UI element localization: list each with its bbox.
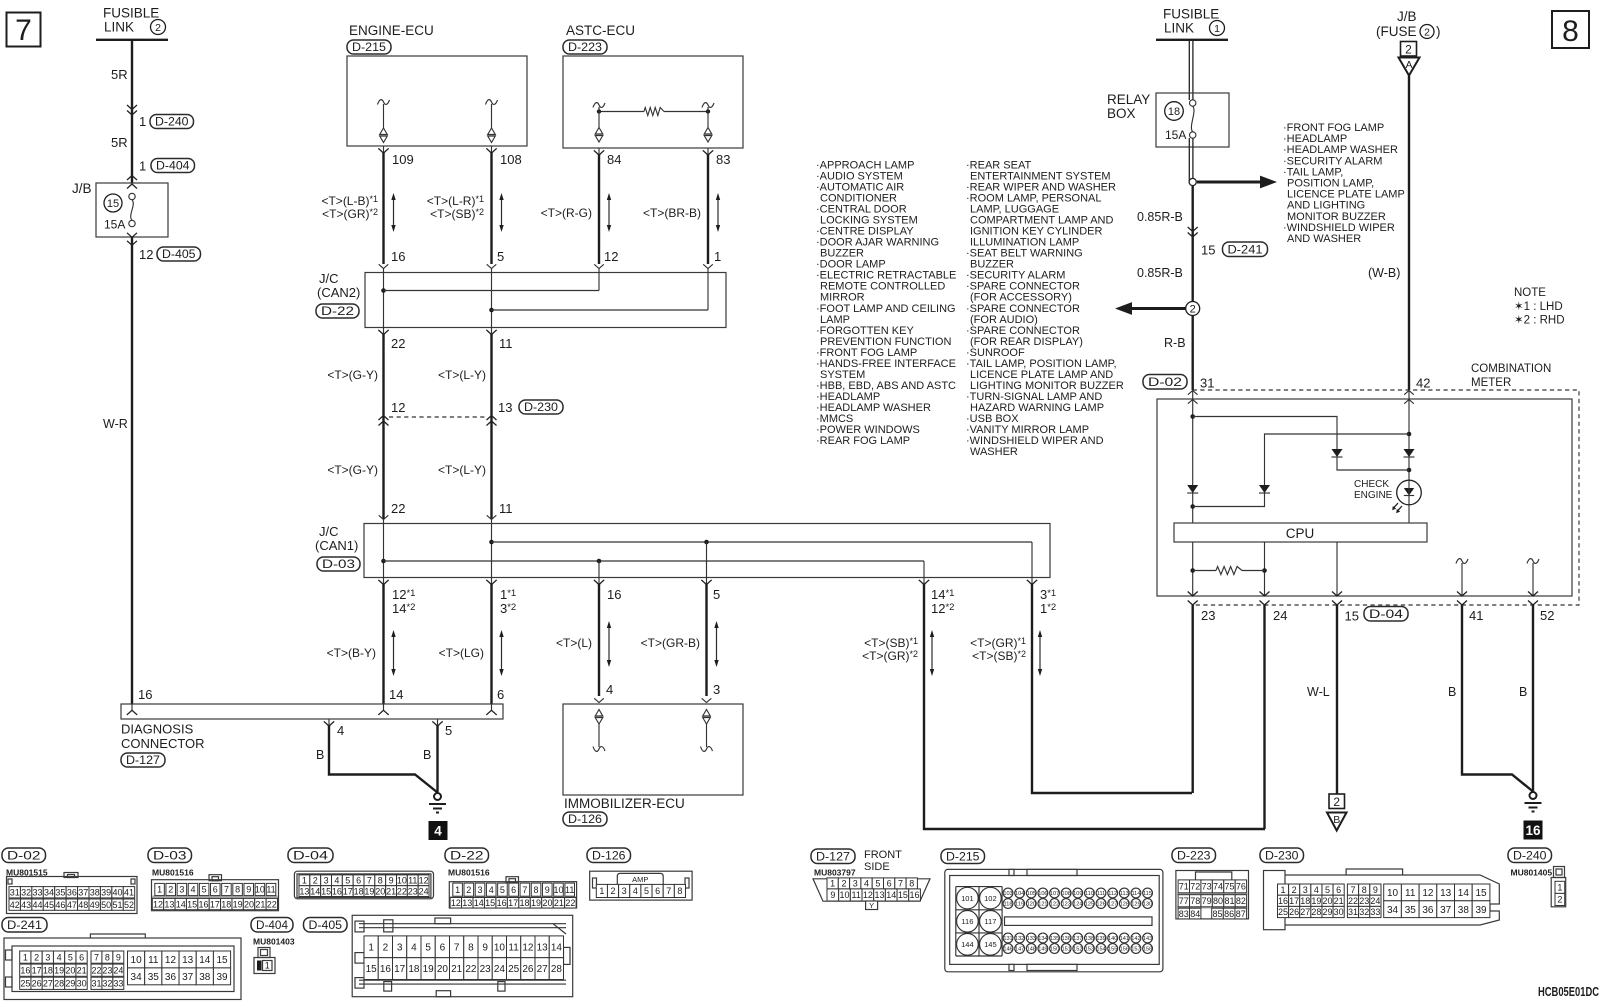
svg-text:145: 145 — [984, 940, 997, 949]
J/C CAN2 box — [365, 273, 726, 328]
svg-text:17: 17 — [343, 886, 353, 896]
svg-text:4: 4 — [337, 723, 344, 738]
meter wires below CPU — [1192, 542, 1194, 596]
svg-text:123: 123 — [1061, 902, 1070, 908]
svg-text:156: 156 — [1120, 947, 1129, 953]
svg-text:7: 7 — [666, 886, 671, 896]
svg-text:107: 107 — [1050, 891, 1059, 897]
svg-text:32: 32 — [102, 979, 112, 989]
svg-text:14: 14 — [551, 942, 563, 953]
svg-text:✶2 : RHD: ✶2 : RHD — [1514, 315, 1565, 327]
svg-text:118: 118 — [1004, 902, 1013, 908]
svg-text:FRONT: FRONT — [864, 849, 902, 861]
ASTC-ECU box — [563, 56, 743, 148]
svg-text:J/B: J/B — [1397, 9, 1417, 24]
diagnosis connector box — [121, 704, 503, 719]
svg-text:151: 151 — [1061, 947, 1070, 953]
svg-text:21: 21 — [77, 965, 87, 975]
CAN1 entry forks — [379, 515, 389, 519]
svg-text:D-03: D-03 — [153, 848, 187, 862]
svg-text:8: 8 — [909, 879, 914, 889]
svg-text:79: 79 — [1202, 896, 1212, 906]
svg-text:A: A — [1405, 59, 1412, 71]
svg-text:14: 14 — [886, 890, 896, 900]
svg-text:11: 11 — [266, 885, 275, 895]
svg-text:157: 157 — [1131, 947, 1140, 953]
svg-text:20: 20 — [437, 964, 449, 975]
svg-text:16: 16 — [380, 964, 392, 975]
svg-text:HCB05E01DC: HCB05E01DC — [1538, 984, 1599, 999]
svg-text:74: 74 — [1213, 882, 1223, 892]
svg-text:15: 15 — [107, 198, 119, 210]
svg-text:3: 3 — [1303, 885, 1308, 895]
svg-text:35: 35 — [1405, 905, 1417, 916]
svg-text:131: 131 — [1003, 936, 1012, 942]
system list column 1 — [816, 160, 956, 448]
svg-text:143: 143 — [1143, 936, 1152, 942]
svg-text:22: 22 — [465, 964, 477, 975]
connector crossing 12 D-405 — [127, 233, 137, 238]
svg-text:36: 36 — [1422, 905, 1434, 916]
svg-text:21: 21 — [1334, 896, 1344, 906]
svg-text:CHECK: CHECK — [1354, 479, 1389, 490]
svg-text:19: 19 — [364, 886, 374, 896]
svg-text:34: 34 — [1387, 905, 1399, 916]
svg-text:22: 22 — [267, 899, 277, 909]
svg-text:<T>(LG): <T>(LG) — [439, 646, 484, 660]
svg-text:17: 17 — [210, 899, 220, 909]
svg-text:8: 8 — [105, 952, 110, 962]
svg-text:81: 81 — [1224, 896, 1234, 906]
svg-text:B: B — [1448, 685, 1456, 699]
connector D-405 pinout — [304, 918, 348, 933]
svg-text:122: 122 — [1050, 902, 1059, 908]
svg-text:150: 150 — [1050, 947, 1059, 953]
svg-text:LINK: LINK — [1164, 21, 1194, 36]
svg-text:D-03: D-03 — [322, 557, 355, 571]
svg-text:D-223: D-223 — [568, 40, 602, 54]
svg-text:50: 50 — [101, 900, 111, 910]
svg-text:21: 21 — [255, 899, 265, 909]
svg-text:26: 26 — [1289, 907, 1299, 917]
svg-text:38: 38 — [90, 887, 100, 897]
svg-text:158: 158 — [1143, 947, 1152, 953]
svg-text:124: 124 — [1073, 902, 1082, 908]
connector D-127 pinout — [811, 849, 855, 864]
svg-text:1: 1 — [368, 942, 374, 953]
immobilizer internal pin symbols — [595, 710, 603, 717]
svg-text:16: 16 — [391, 249, 405, 264]
svg-text:7: 7 — [454, 942, 460, 953]
svg-text:0.85R-B: 0.85R-B — [1137, 210, 1183, 224]
svg-text:31: 31 — [10, 887, 20, 897]
meter bottom pin forks — [1188, 592, 1198, 597]
svg-text:D-230: D-230 — [524, 400, 558, 414]
svg-text:45: 45 — [44, 900, 54, 910]
svg-text:1: 1 — [714, 249, 721, 264]
svg-text:41: 41 — [124, 887, 134, 897]
ASTC internal terminating resistor — [601, 111, 644, 113]
svg-text:7: 7 — [1350, 885, 1355, 895]
svg-text:): ) — [1436, 24, 1441, 39]
svg-text:D-02: D-02 — [7, 848, 41, 862]
svg-text:1: 1 — [599, 886, 604, 896]
ENGINE-ECU box — [347, 56, 527, 146]
CAN2 internal bus CAN-L — [383, 269, 385, 328]
svg-text:Y: Y — [869, 901, 874, 910]
svg-text:LINK: LINK — [104, 20, 134, 35]
junction circle to front harness — [1189, 178, 1196, 185]
svg-text:24: 24 — [419, 886, 429, 896]
svg-text:43: 43 — [21, 900, 31, 910]
svg-text:15: 15 — [216, 955, 228, 966]
svg-text:87: 87 — [1236, 909, 1246, 919]
svg-text:ASTC-ECU: ASTC-ECU — [566, 23, 635, 38]
svg-text:12: 12 — [165, 955, 177, 966]
svg-text:J/B: J/B — [72, 181, 92, 196]
svg-text:D-240: D-240 — [155, 114, 189, 128]
svg-text:7: 7 — [15, 14, 32, 47]
svg-text:24: 24 — [494, 964, 506, 975]
CAN1 internal bus CAN-L — [383, 520, 385, 578]
svg-text:2: 2 — [383, 942, 389, 953]
svg-text:BOX: BOX — [1107, 106, 1136, 121]
svg-text:5: 5 — [500, 885, 505, 895]
svg-text:13: 13 — [299, 886, 309, 896]
svg-text:9: 9 — [1373, 885, 1378, 895]
svg-text:6: 6 — [356, 876, 361, 886]
svg-text:D-215: D-215 — [352, 40, 386, 54]
svg-text:125: 125 — [1085, 902, 1094, 908]
svg-text:18: 18 — [43, 965, 53, 975]
svg-text:12: 12 — [391, 400, 405, 415]
svg-text:115: 115 — [1143, 891, 1152, 897]
meter wire from pin 31 — [1192, 390, 1194, 523]
svg-text:D-22: D-22 — [450, 848, 484, 862]
svg-text:23: 23 — [102, 965, 112, 975]
pin 83 — [707, 148, 709, 155]
meter branch to diode 1 — [1193, 417, 1337, 450]
ground G16 — [1530, 792, 1537, 799]
svg-text:2: 2 — [1333, 795, 1340, 809]
svg-text:119: 119 — [1015, 902, 1024, 908]
fuse 18 15A — [1165, 102, 1184, 121]
svg-text:21: 21 — [554, 898, 564, 908]
svg-text:10: 10 — [494, 942, 506, 953]
svg-text:41: 41 — [1469, 608, 1483, 623]
svg-text:22: 22 — [91, 965, 101, 975]
svg-text:11: 11 — [148, 955, 159, 966]
svg-text:3: 3 — [853, 879, 858, 889]
wire pin 23 down — [1191, 605, 1193, 793]
svg-text:2: 2 — [1557, 895, 1562, 905]
page link triangle A — [1399, 58, 1420, 76]
J/C CAN1 box — [364, 524, 1050, 578]
svg-text:73: 73 — [1202, 882, 1212, 892]
svg-text:32: 32 — [1359, 907, 1369, 917]
svg-text:4: 4 — [633, 886, 638, 896]
svg-text:15: 15 — [1475, 888, 1487, 899]
svg-text:30: 30 — [77, 979, 87, 989]
svg-text:84: 84 — [1190, 909, 1200, 919]
svg-text:39: 39 — [216, 972, 228, 983]
svg-text:34: 34 — [44, 887, 54, 897]
svg-text:42: 42 — [1416, 376, 1430, 391]
svg-text:4: 4 — [411, 942, 417, 953]
svg-text:120: 120 — [1027, 902, 1036, 908]
svg-text:17: 17 — [394, 964, 406, 975]
svg-text:16: 16 — [199, 899, 209, 909]
svg-text:113: 113 — [1120, 891, 1129, 897]
svg-text:3: 3 — [713, 682, 720, 697]
wire W-R — [131, 237, 133, 705]
svg-text:11: 11 — [499, 336, 513, 351]
svg-text:13: 13 — [462, 898, 472, 908]
svg-text:4: 4 — [434, 824, 442, 839]
svg-text:20: 20 — [65, 965, 75, 975]
svg-text:5: 5 — [68, 952, 73, 962]
svg-text:114: 114 — [1131, 891, 1140, 897]
svg-text:5R: 5R — [111, 67, 128, 82]
svg-text:<T>(L-Y): <T>(L-Y) — [438, 368, 486, 382]
CAN wire from pin 109 — [382, 153, 384, 264]
page link 2 B triangle — [1329, 794, 1345, 809]
svg-text:B: B — [423, 748, 431, 762]
svg-text:8: 8 — [677, 886, 682, 896]
CAN wire from pin 84 — [598, 155, 600, 264]
svg-text:5: 5 — [713, 587, 720, 602]
svg-text:140: 140 — [1108, 936, 1117, 942]
svg-text:D-215: D-215 — [946, 849, 980, 863]
IMMOBILIZER-ECU box — [563, 704, 743, 795]
svg-text:13: 13 — [164, 899, 174, 909]
page link box 2 — [1401, 42, 1417, 57]
svg-text:13: 13 — [875, 890, 885, 900]
svg-text:18: 18 — [354, 886, 364, 896]
svg-text:15: 15 — [1201, 243, 1215, 258]
CAN2 exit forks — [383, 328, 385, 335]
connector crossing 15 D-241 — [1188, 227, 1198, 232]
connector D-241 pinout — [2, 918, 47, 933]
svg-text:11: 11 — [499, 501, 513, 516]
arrow to body harness — [1132, 307, 1186, 310]
svg-text:146: 146 — [1003, 947, 1012, 953]
page number 8 box — [1552, 11, 1589, 48]
svg-text:✶1 : LHD: ✶1 : LHD — [1514, 301, 1563, 313]
svg-text:26: 26 — [32, 979, 42, 989]
svg-text:2: 2 — [841, 879, 846, 889]
svg-text:6: 6 — [887, 879, 892, 889]
svg-text:75: 75 — [1224, 882, 1234, 892]
connector D-404 pinout — [251, 918, 293, 933]
svg-text:105: 105 — [1027, 891, 1036, 897]
svg-text:14: 14 — [1458, 888, 1470, 899]
svg-text:1: 1 — [265, 961, 270, 971]
svg-text:82: 82 — [1236, 896, 1246, 906]
svg-text:28: 28 — [54, 979, 64, 989]
svg-text:D-240: D-240 — [1513, 848, 1547, 862]
svg-text:RELAY: RELAY — [1107, 92, 1150, 107]
svg-text:44: 44 — [33, 900, 43, 910]
svg-text:D-04: D-04 — [1369, 607, 1403, 621]
svg-text:28: 28 — [1311, 907, 1321, 917]
svg-text:J/C: J/C — [319, 524, 339, 539]
svg-text:12: 12 — [139, 247, 153, 262]
svg-text:83: 83 — [716, 152, 730, 167]
svg-text:132: 132 — [1015, 936, 1024, 942]
svg-text:NOTE: NOTE — [1514, 287, 1546, 299]
svg-text:77: 77 — [1179, 896, 1189, 906]
svg-text:101: 101 — [961, 894, 974, 903]
svg-text:130: 130 — [1143, 902, 1152, 908]
svg-text:110: 110 — [1085, 891, 1094, 897]
svg-text:4: 4 — [1314, 885, 1319, 895]
svg-text:27: 27 — [43, 979, 53, 989]
svg-text:4: 4 — [57, 952, 62, 962]
pin 84 — [598, 148, 600, 155]
svg-text:20: 20 — [244, 899, 254, 909]
svg-text:29: 29 — [1323, 907, 1333, 917]
svg-text:11: 11 — [852, 890, 861, 900]
ASTC internal pin 83 symbol — [702, 103, 714, 108]
svg-text:21: 21 — [386, 886, 396, 896]
svg-text:9: 9 — [545, 885, 550, 895]
svg-text:9: 9 — [116, 952, 121, 962]
svg-text:24: 24 — [1370, 896, 1380, 906]
svg-text:MU801403: MU801403 — [253, 937, 295, 947]
svg-text:12: 12 — [451, 898, 461, 908]
svg-text:1: 1 — [157, 885, 162, 895]
meter internal resistor — [1190, 568, 1195, 573]
ground wire B pin 52 — [1532, 605, 1534, 792]
svg-text:METER: METER — [1471, 377, 1511, 389]
wire T SB/GR to meter pin 23 — [1032, 584, 1192, 793]
svg-text:13: 13 — [498, 400, 512, 415]
svg-text:1: 1 — [1281, 885, 1286, 895]
svg-text:22: 22 — [565, 898, 575, 908]
svg-text:22: 22 — [397, 886, 407, 896]
svg-text:35: 35 — [55, 887, 65, 897]
svg-text:D-02: D-02 — [1148, 375, 1182, 389]
pin 31 into meter — [1143, 375, 1187, 390]
svg-text:B: B — [1519, 685, 1527, 699]
meter branch to diode 2 — [1265, 434, 1410, 485]
connector D-230 pinout — [1260, 848, 1304, 863]
svg-text:102: 102 — [984, 894, 997, 903]
CAN1 internal bus CAN-H — [491, 520, 493, 578]
svg-text:144: 144 — [961, 940, 974, 949]
page number 7 box — [7, 13, 41, 47]
svg-text:D-127: D-127 — [816, 849, 850, 863]
svg-text:116: 116 — [961, 917, 973, 926]
svg-text:D-404: D-404 — [156, 158, 190, 172]
svg-text:71: 71 — [1179, 882, 1189, 892]
svg-text:6: 6 — [655, 886, 660, 896]
svg-text:15: 15 — [485, 898, 495, 908]
svg-text:1: 1 — [139, 159, 146, 174]
wire W-L pin 15 — [1336, 605, 1338, 794]
meter spare pins 41 52 hooks — [1456, 559, 1468, 564]
svg-text:3: 3 — [324, 876, 329, 886]
svg-text:5: 5 — [345, 876, 350, 886]
svg-text:11: 11 — [508, 942, 519, 953]
svg-text:18: 18 — [1300, 896, 1310, 906]
svg-text:16: 16 — [607, 587, 621, 602]
svg-text:<T>(G-Y): <T>(G-Y) — [327, 368, 378, 382]
svg-text:3: 3 — [478, 885, 483, 895]
svg-text:148: 148 — [1027, 947, 1036, 953]
svg-text:129: 129 — [1131, 902, 1140, 908]
immobilizer pin 3 — [702, 698, 712, 702]
svg-text:1: 1 — [1214, 23, 1220, 35]
svg-text:2: 2 — [313, 876, 318, 886]
ASTC internal pin 84 symbol — [593, 103, 605, 108]
svg-text:2: 2 — [1405, 43, 1412, 57]
svg-text:3: 3 — [179, 885, 184, 895]
svg-text:15A: 15A — [1165, 128, 1186, 142]
svg-text:33: 33 — [113, 979, 123, 989]
svg-text:FUSIBLE: FUSIBLE — [103, 6, 159, 21]
fusible link double wire upper — [1188, 40, 1190, 100]
wire T B-Y — [382, 584, 384, 704]
svg-text:16: 16 — [497, 898, 507, 908]
svg-text:16: 16 — [1278, 896, 1288, 906]
svg-text:112: 112 — [1108, 891, 1117, 897]
svg-text:12: 12 — [419, 876, 429, 886]
svg-text:34: 34 — [131, 972, 143, 983]
svg-text:19: 19 — [233, 899, 243, 909]
svg-text:37: 37 — [78, 887, 88, 897]
svg-text:18: 18 — [520, 898, 530, 908]
svg-text:21: 21 — [451, 964, 463, 975]
svg-text:9: 9 — [482, 942, 488, 953]
svg-text:12: 12 — [1422, 888, 1434, 899]
system list column 2 — [966, 160, 1124, 459]
svg-text:135: 135 — [1050, 936, 1059, 942]
svg-text:<T>(GR-B): <T>(GR-B) — [641, 636, 700, 650]
svg-text:3: 3 — [622, 886, 627, 896]
svg-text:126: 126 — [1096, 902, 1105, 908]
svg-text:18: 18 — [1168, 106, 1180, 118]
svg-text:8: 8 — [1562, 15, 1579, 48]
svg-text:47: 47 — [67, 900, 77, 910]
svg-text:D-127: D-127 — [126, 753, 160, 767]
junction 2 circle — [1186, 302, 1200, 316]
svg-text:30: 30 — [1334, 907, 1344, 917]
CAN wire L-Y upper — [490, 334, 492, 519]
svg-text:12: 12 — [153, 899, 163, 909]
wire 0.85R-B — [1191, 186, 1193, 302]
svg-text:0.85R-B: 0.85R-B — [1137, 266, 1183, 280]
svg-text:25: 25 — [508, 964, 520, 975]
svg-text:121: 121 — [1038, 902, 1047, 908]
svg-text:1: 1 — [830, 879, 835, 889]
svg-text:51: 51 — [113, 900, 123, 910]
svg-text:MU801405: MU801405 — [1511, 867, 1553, 877]
ground G4 — [434, 793, 441, 800]
svg-text:2: 2 — [1424, 26, 1430, 38]
svg-text:(FUSE: (FUSE — [1376, 24, 1417, 39]
svg-text:38: 38 — [1458, 905, 1470, 916]
wire T GR-B to immobilizer — [705, 584, 707, 696]
svg-text:139: 139 — [1096, 936, 1105, 942]
svg-text:12: 12 — [522, 942, 534, 953]
svg-text:8: 8 — [468, 942, 474, 953]
svg-text:22: 22 — [391, 336, 405, 351]
svg-text:5: 5 — [202, 885, 207, 895]
svg-text:9: 9 — [830, 890, 835, 900]
svg-text:6: 6 — [497, 687, 504, 702]
